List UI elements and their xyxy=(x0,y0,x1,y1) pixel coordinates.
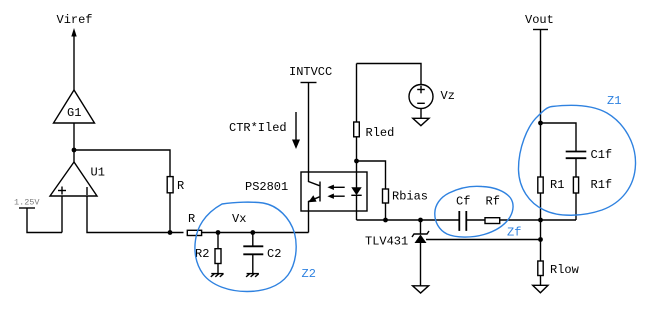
node C2 top junction xyxy=(250,230,255,235)
svg-text:U1: U1 xyxy=(91,166,105,180)
net label Viref xyxy=(57,13,93,27)
node ref junction xyxy=(538,237,543,242)
node Z1 top junction xyxy=(538,121,543,126)
svg-text:Rbias: Rbias xyxy=(392,190,428,204)
capacitor Cf xyxy=(456,195,485,231)
svg-text:PS2801: PS2801 xyxy=(245,180,288,194)
highlight label Z1 xyxy=(607,94,621,108)
optocoupler phototransistor xyxy=(308,172,320,211)
resistor Rbias xyxy=(383,189,429,220)
ground under TLV431 xyxy=(413,286,429,293)
wire feedback top xyxy=(74,150,170,177)
svg-text:R1f: R1f xyxy=(591,178,613,192)
svg-text:C2: C2 xyxy=(267,247,281,261)
svg-text:CTR*Iled: CTR*Iled xyxy=(229,121,287,135)
svg-text:R: R xyxy=(177,179,184,193)
power rail INTVCC xyxy=(289,65,332,172)
node R bottom junction xyxy=(168,230,173,235)
svg-text:G1: G1 xyxy=(67,106,81,120)
highlight circle Z2 xyxy=(195,202,296,291)
wire G1 output to node xyxy=(73,123,75,150)
node TLV431 cathode junction xyxy=(418,218,423,223)
optocoupler light arrows xyxy=(327,185,344,199)
node label Vx xyxy=(232,212,246,226)
resistor Rled xyxy=(354,64,395,173)
current label CTR*Iled xyxy=(229,121,287,135)
svg-text:TLV431: TLV431 xyxy=(365,235,408,249)
shunt regulator TLV431 xyxy=(365,220,429,286)
voltage source 1.25V xyxy=(14,198,62,233)
resistor Rf xyxy=(485,195,541,224)
resistor R1f xyxy=(573,177,612,220)
resistor R1 xyxy=(538,123,565,220)
wire TLV431 ref xyxy=(426,239,541,241)
svg-text:Vout: Vout xyxy=(525,13,554,27)
wire emitter to Vx rail xyxy=(308,211,310,233)
highlight circle Zf xyxy=(435,186,513,237)
wire U1 output up xyxy=(73,150,75,162)
wire op-amp plus input xyxy=(61,196,63,233)
wire R1f bottom to main xyxy=(541,219,577,221)
wire Vz to ground xyxy=(420,109,422,119)
highlight circle Z1 xyxy=(518,105,635,215)
power rail Vout xyxy=(525,13,554,123)
node Rbias bottom junction xyxy=(383,218,388,223)
svg-text:Vz: Vz xyxy=(441,89,455,103)
svg-text:Z1: Z1 xyxy=(607,94,621,108)
wire R down to rail xyxy=(169,193,171,233)
svg-text:Rlow: Rlow xyxy=(550,263,580,277)
capacitor C2 xyxy=(243,233,281,274)
node R2 top junction xyxy=(216,230,221,235)
ground under C2 xyxy=(246,274,259,277)
svg-text:Rf: Rf xyxy=(486,195,500,209)
highlight label Z2 xyxy=(302,267,316,281)
wire C1f branch top xyxy=(541,123,577,151)
svg-text:INTVCC: INTVCC xyxy=(289,65,332,79)
resistor R2 xyxy=(195,233,221,274)
wire Rbias top branch xyxy=(357,161,386,189)
voltage source Vz xyxy=(409,85,455,109)
node junction op-amp output xyxy=(72,148,77,153)
ground under R2 xyxy=(211,274,224,277)
svg-text:C1f: C1f xyxy=(591,148,613,162)
node Rled bottom junction xyxy=(354,159,359,164)
resistor R (horizontal) xyxy=(187,212,201,236)
svg-text:R1: R1 xyxy=(550,178,564,192)
wire Rled top to Vz xyxy=(357,64,422,85)
svg-text:Cf: Cf xyxy=(456,195,470,209)
wire Vx rail xyxy=(202,232,309,234)
optocoupler PS2801 box xyxy=(245,172,367,211)
wire main down xyxy=(540,220,542,261)
optocoupler LED xyxy=(351,172,361,220)
capacitor C1f xyxy=(566,148,612,177)
svg-text:Z2: Z2 xyxy=(302,267,316,281)
svg-text:R2: R2 xyxy=(195,247,209,261)
svg-text:1.25V: 1.25V xyxy=(14,198,40,208)
highlight label Zf xyxy=(507,226,521,240)
wire op-amp minus input xyxy=(87,196,184,233)
ground under Vz xyxy=(413,118,429,125)
op-amp U1 xyxy=(50,162,105,196)
resistor R (vertical) xyxy=(167,177,184,193)
wire Viref arrow xyxy=(71,28,76,90)
wire LED cathode rail xyxy=(357,219,460,221)
svg-text:Zf: Zf xyxy=(507,226,521,240)
ground under Rlow xyxy=(533,285,548,293)
node feedback upper junction xyxy=(538,218,543,223)
svg-text:R: R xyxy=(188,212,195,226)
current arrow CTR*Iled xyxy=(292,112,300,149)
svg-text:Rled: Rled xyxy=(366,126,395,140)
svg-text:Vx: Vx xyxy=(232,212,246,226)
resistor Rlow xyxy=(538,261,580,285)
buffer G1 xyxy=(54,90,95,123)
svg-text:Viref: Viref xyxy=(57,13,93,27)
